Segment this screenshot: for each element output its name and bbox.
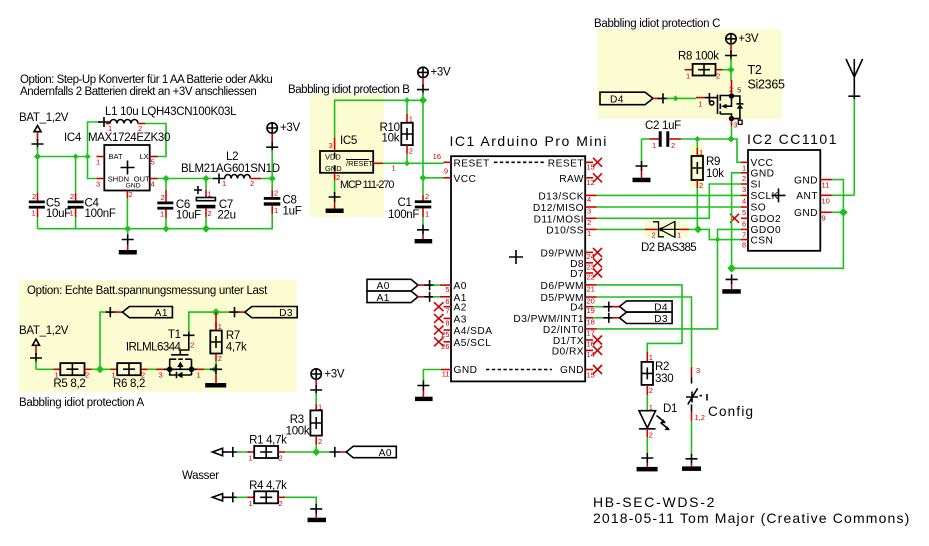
svg-text:1: 1 <box>208 190 212 199</box>
wire T1 drain up to D3 node <box>189 312 216 332</box>
svg-text:1: 1 <box>249 499 253 508</box>
wire IC1 GND pin <box>423 370 441 382</box>
svg-text:21: 21 <box>587 284 595 293</box>
svg-text:7: 7 <box>445 307 449 316</box>
svg-text:2: 2 <box>671 141 675 150</box>
svg-text:6: 6 <box>445 297 449 306</box>
wire IC4 GND pin to rail <box>126 198 128 229</box>
svg-text:D2/INT0: D2/INT0 <box>543 325 584 336</box>
highlight box: Babbling idiot protection C <box>597 29 782 119</box>
IC2 right pin labels <box>794 175 818 219</box>
svg-text:GDO2: GDO2 <box>751 214 782 225</box>
junction C4 tap <box>73 154 79 160</box>
svg-text:D3/PWM/INT1: D3/PWM/INT1 <box>513 314 584 325</box>
wire D4 node to R8 and T2 gate <box>676 97 697 99</box>
svg-text:D9/PWM: D9/PWM <box>541 248 584 259</box>
svg-text:Si2365: Si2365 <box>748 78 785 92</box>
IC4 MAX1724EZK30 <box>64 132 170 199</box>
svg-text:10k: 10k <box>382 133 400 145</box>
svg-text:2: 2 <box>649 386 653 395</box>
svg-text:A2: A2 <box>454 303 467 314</box>
svg-text:BAT_1,2V: BAT_1,2V <box>19 325 69 337</box>
svg-text:18: 18 <box>587 317 595 326</box>
wire D11/MOSI to SI <box>597 184 742 218</box>
net label A0 (IC1 left) <box>367 279 440 292</box>
svg-text:5: 5 <box>445 285 449 294</box>
svg-text:D6/PWM: D6/PWM <box>541 281 584 292</box>
svg-text:+3V: +3V <box>280 122 301 134</box>
svg-text:2: 2 <box>190 341 194 350</box>
wasser probe 1 <box>212 447 250 457</box>
capacitor C6 <box>157 179 201 229</box>
resistor R1 <box>248 435 288 463</box>
junction C7 bottom <box>202 225 210 233</box>
ground (C2) <box>633 139 651 182</box>
ground (IC2) <box>722 274 741 293</box>
IC2 left pin stubs and numbers <box>741 162 748 249</box>
resistor R4 <box>248 480 288 508</box>
svg-text:D11/MOSI: D11/MOSI <box>534 214 584 225</box>
IC1 right pin stubs and numbers <box>585 162 596 379</box>
svg-text:1: 1 <box>197 371 201 380</box>
svg-text:/RESET: /RESET <box>346 159 374 168</box>
svg-text:2: 2 <box>208 209 212 218</box>
net label D3 (protection A) <box>229 307 297 320</box>
wire D2 diode to R9/CSN/GDO0 <box>689 229 741 239</box>
svg-text:1,2: 1,2 <box>695 413 705 422</box>
svg-text:MAX1724EZK30: MAX1724EZK30 <box>88 132 170 144</box>
wire D6/PWM to R2 <box>597 285 683 352</box>
junction +3V B node <box>419 96 427 104</box>
svg-text:15: 15 <box>587 371 595 380</box>
svg-text:1: 1 <box>70 209 74 218</box>
svg-text:9: 9 <box>444 167 448 176</box>
net label A1 (IC1 left) <box>367 291 440 304</box>
svg-text:HB-SEC-WDS-2: HB-SEC-WDS-2 <box>593 494 716 510</box>
svg-text:1uF: 1uF <box>283 206 302 218</box>
wire +3V to IC5 VDD <box>335 100 423 137</box>
svg-text:1: 1 <box>677 231 681 240</box>
svg-text:8: 8 <box>742 241 746 250</box>
svg-text:R5 8,2: R5 8,2 <box>53 378 85 390</box>
wire ground rail (step-up) <box>38 228 207 230</box>
svg-text:D10/SS: D10/SS <box>546 225 584 236</box>
svg-text:D1: D1 <box>663 403 677 415</box>
svg-text:D1/TX: D1/TX <box>553 336 584 347</box>
svg-text:IRLML6344: IRLML6344 <box>126 342 182 354</box>
junction T2/C2/VCC <box>728 136 735 143</box>
ground (IC5) <box>326 180 344 213</box>
junction OUT/C6 <box>163 175 170 182</box>
svg-text:BLM21AG601SN1D: BLM21AG601SN1D <box>181 163 280 175</box>
wire D10/SS to D2 diode <box>597 228 646 230</box>
svg-text:R3: R3 <box>290 414 304 426</box>
svg-text:VDD: VDD <box>325 153 341 162</box>
IC1 right X marks <box>593 158 602 374</box>
IC1 left X marks <box>434 302 444 346</box>
net label D3 (IC1 right) <box>593 312 672 325</box>
ground (C1) <box>415 217 433 243</box>
wire D13/SCK to SCLK <box>597 194 742 196</box>
wire +3V down to VCC and C1 <box>422 100 424 195</box>
svg-text:C1: C1 <box>398 197 412 209</box>
svg-text:R9: R9 <box>706 156 720 168</box>
junction battery/C5 <box>34 153 41 160</box>
svg-text:IC1 Arduino Pro Mini: IC1 Arduino Pro Mini <box>450 133 608 149</box>
wire A1 tap up <box>100 312 106 369</box>
svg-text:3: 3 <box>733 121 737 130</box>
resistor R8 <box>678 51 731 81</box>
svg-text:GND: GND <box>325 164 342 173</box>
svg-text:T2: T2 <box>748 63 762 77</box>
resistor R3 <box>286 402 323 452</box>
junction R10 bottom <box>404 160 410 166</box>
capacitor C1 <box>388 192 431 221</box>
ground (D1) <box>637 453 658 471</box>
svg-text:Babbling idiot protection B: Babbling idiot protection B <box>288 84 410 96</box>
svg-text:2: 2 <box>129 190 133 199</box>
svg-text:RESET: RESET <box>454 158 490 169</box>
capacitor C2 <box>642 120 682 150</box>
ground (T1/R7) <box>205 364 226 387</box>
svg-text:1: 1 <box>742 163 746 172</box>
IC2 right pin stubs and numbers <box>820 180 832 223</box>
svg-text:GND: GND <box>751 169 775 180</box>
svg-text:2: 2 <box>425 192 429 201</box>
svg-text:100k: 100k <box>286 426 310 438</box>
svg-text:3: 3 <box>159 371 163 380</box>
svg-text:1: 1 <box>392 164 396 173</box>
wire node to D3 label <box>216 311 230 313</box>
svg-text:3: 3 <box>329 141 333 150</box>
svg-text:1: 1 <box>96 158 100 167</box>
capacitor C5 <box>29 192 71 229</box>
net label D4 (IC1 right) <box>593 301 672 314</box>
wire R1 to A0 node <box>285 451 330 453</box>
svg-text:2: 2 <box>336 173 340 182</box>
svg-text:2: 2 <box>279 499 283 508</box>
svg-text:1: 1 <box>160 210 164 219</box>
capacitor C7 (polarized) <box>194 179 236 229</box>
svg-text:SCLK: SCLK <box>751 191 779 202</box>
svg-text:GND: GND <box>454 365 478 376</box>
svg-text:10uF: 10uF <box>46 208 71 220</box>
svg-text:Option: Echte Batt.spannungsme: Option: Echte Batt.spannungsmessung unte… <box>27 285 268 297</box>
svg-text:2: 2 <box>32 192 36 201</box>
IC2 GDO2 X mark <box>730 214 739 223</box>
svg-text:1: 1 <box>649 353 653 362</box>
svg-text:GND: GND <box>126 183 141 190</box>
transistor T1 IRLML6344 <box>126 329 204 380</box>
wire +3V to T2 drain <box>730 70 733 80</box>
svg-text:330: 330 <box>655 373 673 385</box>
svg-text:1: 1 <box>55 371 59 380</box>
svg-text:2: 2 <box>161 193 165 202</box>
svg-text:R7: R7 <box>226 330 240 342</box>
wire SHDN to BAT vertical <box>88 157 97 179</box>
wire IC2 GND net <box>732 173 844 268</box>
svg-text:9: 9 <box>822 213 826 222</box>
svg-text:BAT: BAT <box>109 152 123 161</box>
svg-text:Option: Step-Up Konverter für: Option: Step-Up Konverter für 1 AA Batte… <box>20 74 272 86</box>
svg-text:GND: GND <box>560 365 584 376</box>
svg-text:L2: L2 <box>226 151 238 163</box>
wire battery to R5 <box>36 368 54 370</box>
svg-text:2: 2 <box>141 371 145 380</box>
inductor L2 BLM21AG601SN1D <box>181 151 280 188</box>
svg-text:1: 1 <box>222 179 226 188</box>
resistor R9 <box>692 139 725 229</box>
svg-text:C2 1uF: C2 1uF <box>645 120 681 132</box>
svg-text:11: 11 <box>442 370 450 379</box>
svg-text:VCC: VCC <box>454 174 477 185</box>
svg-text:R6 8,2: R6 8,2 <box>113 378 145 390</box>
resistor R7 <box>210 312 247 369</box>
svg-text:2: 2 <box>250 179 254 188</box>
svg-text:T1: T1 <box>168 329 181 341</box>
svg-text:100nF: 100nF <box>85 208 116 220</box>
resistor R10 <box>380 100 413 163</box>
junction CSN/INT0 node <box>715 237 721 243</box>
wire T2 source to VCC node <box>731 126 733 139</box>
ground (Config) <box>682 454 701 471</box>
svg-text:D13/SCK: D13/SCK <box>538 191 584 202</box>
svg-text:5: 5 <box>742 208 746 217</box>
svg-text:5: 5 <box>737 88 741 95</box>
svg-text:D4: D4 <box>610 94 624 105</box>
svg-text:2: 2 <box>318 437 322 446</box>
svg-text:CSN: CSN <box>751 235 774 246</box>
svg-text:2: 2 <box>70 192 74 201</box>
svg-text:BAT_1,2V: BAT_1,2V <box>19 112 69 124</box>
svg-text:2: 2 <box>716 71 720 80</box>
highlight box: R9 <box>689 144 704 188</box>
capacitor C8 <box>206 179 302 229</box>
svg-text:22u: 22u <box>217 210 235 222</box>
svg-text:L1 10u LQH43CN100K03L: L1 10u LQH43CN100K03L <box>105 106 237 118</box>
svg-text:2: 2 <box>85 371 89 380</box>
highlight box: Babbling idiot protection B <box>310 94 384 217</box>
svg-text:+3V: +3V <box>324 369 345 381</box>
svg-text:+3V: +3V <box>738 33 759 45</box>
svg-text:D2 BAS385: D2 BAS385 <box>641 242 696 254</box>
svg-text:Babbling idiot protection A: Babbling idiot protection A <box>19 397 145 409</box>
svg-text:Config: Config <box>708 404 754 419</box>
wire OUT rail <box>158 178 215 180</box>
svg-text:3: 3 <box>587 207 591 216</box>
wire IC5 /RESET to IC1 RESET <box>383 162 443 164</box>
IC1 left pin labels <box>454 158 493 376</box>
wire D12/MISO to SO <box>597 206 742 208</box>
svg-text:4,7k: 4,7k <box>226 342 247 354</box>
svg-text:Wasser: Wasser <box>182 470 219 482</box>
junction R8/+3V <box>728 66 735 73</box>
wire C2 to T2 node <box>681 139 741 162</box>
svg-text:A3: A3 <box>454 314 467 325</box>
svg-text:11: 11 <box>822 181 830 190</box>
svg-text:Andernfalls 2 Batterien direkt: Andernfalls 2 Batterien direkt an +3V an… <box>20 86 256 98</box>
LED D1 <box>639 395 677 453</box>
svg-text:1: 1 <box>686 71 690 80</box>
net label A1 (protection A) <box>106 307 173 320</box>
svg-text:A1: A1 <box>377 293 390 304</box>
ground (IC1 GND) <box>415 381 433 402</box>
wire L1 to LX <box>145 124 166 157</box>
svg-text:1: 1 <box>218 322 222 331</box>
svg-text:GND: GND <box>794 208 818 219</box>
svg-text:19: 19 <box>587 306 595 315</box>
junction VCC tap <box>420 174 427 181</box>
svg-text:1: 1 <box>249 454 253 463</box>
svg-text:2: 2 <box>652 231 656 240</box>
wire R4 to ground <box>285 497 316 505</box>
svg-text:A0: A0 <box>454 281 467 292</box>
IC2 CC1101 <box>747 131 838 251</box>
supply BAT_1,2V (step-up) <box>19 112 69 149</box>
svg-text:ANT: ANT <box>796 191 818 202</box>
svg-text:10k: 10k <box>706 168 724 180</box>
resistor R6 <box>110 363 148 390</box>
svg-text:2: 2 <box>274 189 278 198</box>
svg-text:LX: LX <box>140 152 149 161</box>
svg-text:D7: D7 <box>570 269 584 280</box>
svg-text:2: 2 <box>729 85 733 94</box>
svg-text:R2: R2 <box>655 361 669 373</box>
svg-text:R1 4,7k: R1 4,7k <box>249 435 287 447</box>
IC1 left pin stubs and numbers <box>433 152 451 379</box>
junction +3V/C8 <box>269 175 276 182</box>
svg-text:IC2 CC1101: IC2 CC1101 <box>747 131 838 147</box>
svg-text:D12/MISO: D12/MISO <box>533 203 584 214</box>
svg-text:A1: A1 <box>155 308 168 319</box>
svg-text:3: 3 <box>742 185 746 194</box>
svg-text:1: 1 <box>32 209 36 218</box>
junction C6 bottom <box>163 225 170 232</box>
junction C7 top <box>203 175 210 182</box>
junction R9 top <box>694 136 700 142</box>
svg-text:16: 16 <box>433 152 441 161</box>
svg-text:IC5: IC5 <box>340 135 357 147</box>
net label D4 (protection C) <box>600 92 676 105</box>
wire T1 source to GND node <box>204 368 216 370</box>
svg-text:D0/RX: D0/RX <box>552 346 584 357</box>
svg-text:D3: D3 <box>654 314 668 325</box>
svg-text:7: 7 <box>742 230 746 239</box>
junction D4/R8 <box>673 95 679 101</box>
svg-text:2: 2 <box>279 454 283 463</box>
diode D2 BAS385 <box>641 221 696 254</box>
svg-text:SI: SI <box>751 180 762 191</box>
svg-text:2: 2 <box>649 431 653 440</box>
svg-text:4: 4 <box>742 196 746 205</box>
wire VCC row <box>423 177 444 179</box>
junction BAT/SHDN vertical <box>85 154 91 160</box>
net label A0 (R1) <box>330 446 397 459</box>
svg-text:D4: D4 <box>570 303 584 314</box>
svg-text:4: 4 <box>587 195 591 204</box>
svg-text:2: 2 <box>409 147 413 156</box>
highlight box: D2 <box>644 221 688 237</box>
svg-text:2: 2 <box>587 218 591 227</box>
svg-text:Babbling idiot protection C: Babbling idiot protection C <box>594 18 720 30</box>
svg-text:2: 2 <box>699 181 703 190</box>
wire BAT+ net <box>38 122 102 193</box>
wire D5/PWM to Config switch <box>597 297 692 367</box>
junction R7 top node <box>212 308 220 316</box>
supply +3V (step-up) <box>266 122 300 179</box>
junction GND9 <box>839 208 848 217</box>
svg-text:1: 1 <box>318 403 322 412</box>
junction A1 tap <box>96 365 104 373</box>
svg-text:1: 1 <box>698 100 702 109</box>
svg-text:VCC: VCC <box>751 158 774 169</box>
junction T1 source/R7/GND <box>211 366 217 372</box>
svg-text:A4/SDA: A4/SDA <box>454 326 493 337</box>
svg-text:IC4: IC4 <box>64 132 82 144</box>
junction R10 top <box>404 97 410 103</box>
supply +3V (protection C) <box>725 33 759 70</box>
capacitor C4 <box>68 192 116 229</box>
svg-text:2: 2 <box>742 174 746 183</box>
svg-text:3: 3 <box>96 180 100 189</box>
svg-text:SO: SO <box>751 203 767 214</box>
ground (R4) <box>308 504 327 522</box>
junction R9 bottom node <box>694 225 702 233</box>
supply +3V (R3) <box>310 369 345 403</box>
svg-text:1: 1 <box>652 141 656 150</box>
svg-text:10: 10 <box>822 196 830 205</box>
svg-text:5: 5 <box>151 158 155 167</box>
svg-text:1: 1 <box>587 229 591 238</box>
wire R5 to R6 <box>92 368 111 370</box>
highlight box: Option Echte Batt.spannungsmessung <box>19 280 297 392</box>
wire R6 to T1 gate <box>148 368 156 370</box>
junction GND below IC2 <box>727 264 736 273</box>
svg-text:100nF: 100nF <box>388 209 419 221</box>
svg-text:R8 100k: R8 100k <box>678 51 719 63</box>
svg-text:+3V: +3V <box>431 67 452 79</box>
antenna <box>832 59 863 195</box>
IC5 MCP111-270 <box>320 135 396 191</box>
svg-text:MCP 111-270: MCP 111-270 <box>340 179 394 191</box>
svg-text:20: 20 <box>587 297 595 306</box>
IC2 left pin labels <box>751 158 782 246</box>
ground (step-up) <box>119 229 137 255</box>
svg-text:2018-05-11 Tom Major (Creative: 2018-05-11 Tom Major (Creative Commons) <box>593 510 910 526</box>
switch Config <box>686 366 754 454</box>
wire GDO0 node to D2/INT0 <box>597 240 718 329</box>
svg-text:GND: GND <box>794 175 818 186</box>
svg-text:1: 1 <box>409 115 413 124</box>
wire L2 to +3V node <box>261 178 272 180</box>
resistor R5 <box>53 363 91 390</box>
svg-text:8: 8 <box>445 318 449 327</box>
transistor T2 Si2365 <box>696 63 785 130</box>
supply +3V (protection B) <box>417 67 451 101</box>
junction GND tap <box>124 225 131 232</box>
IC1 Arduino Pro Mini box <box>450 133 608 381</box>
svg-text:A0: A0 <box>379 448 392 459</box>
supply BAT_1,2V (protection A) <box>19 325 69 369</box>
svg-text:D3: D3 <box>279 308 293 319</box>
svg-text:RESET: RESET <box>548 158 584 169</box>
svg-text:4: 4 <box>151 180 155 189</box>
svg-text:2: 2 <box>218 354 222 363</box>
svg-text:3: 3 <box>696 366 700 375</box>
svg-text:RAW: RAW <box>559 174 584 185</box>
resistor R2 <box>642 352 674 395</box>
svg-text:1: 1 <box>699 148 703 157</box>
